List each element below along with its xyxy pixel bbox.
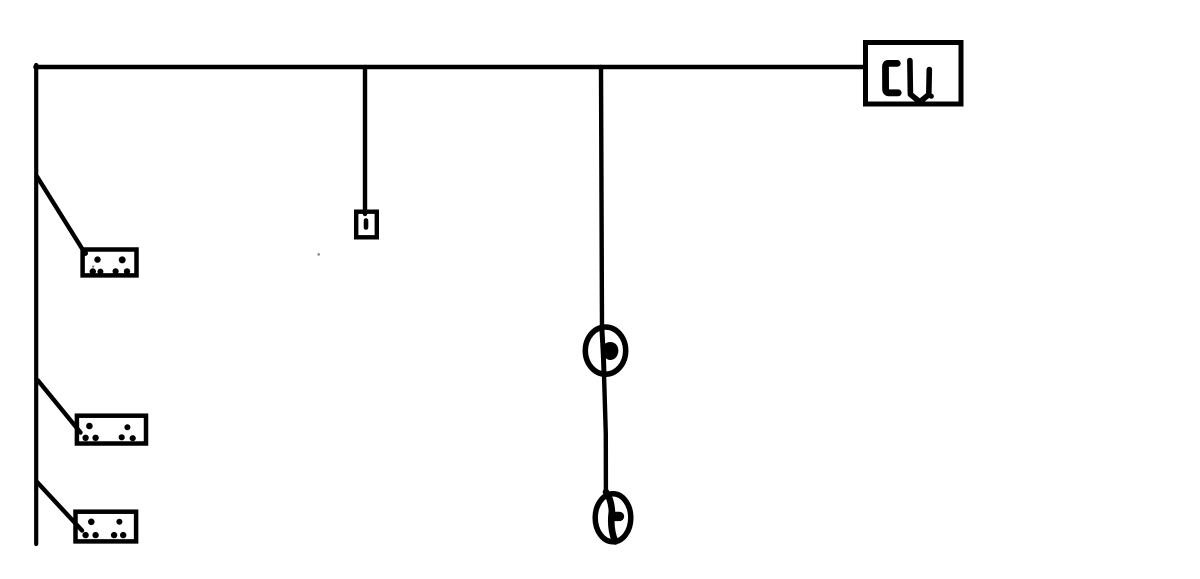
node: top-left corner junction — [34, 65, 39, 70]
node: T-junction feed to lamp drop — [599, 65, 603, 69]
socket outlet 3 — [76, 512, 137, 542]
lamp 2 (pendant) — [595, 492, 631, 542]
wire: lamp drop — [601, 67, 602, 330]
wire: branch to socket 2 — [38, 381, 81, 433]
wire: switch drop — [363, 67, 367, 214]
stray ink dot — [317, 253, 320, 256]
wire: left vertical main run — [34, 65, 38, 544]
lamp 1 (pendant) — [585, 327, 625, 375]
node: T-junction feed to switch drop — [363, 65, 367, 69]
wire: branch to socket 1 — [37, 177, 85, 253]
wire: lamp 1 to lamp 2 — [604, 374, 606, 491]
switch (light switch) — [356, 212, 377, 238]
consumer unit CU — [866, 43, 962, 105]
wire: branch to socket 3 — [37, 482, 82, 531]
socket outlet 1 — [83, 250, 137, 276]
socket outlet 2 — [77, 416, 146, 444]
wire: main horizontal feed from CU — [36, 65, 863, 70]
junction blob at socket 1 wire end — [82, 250, 88, 256]
